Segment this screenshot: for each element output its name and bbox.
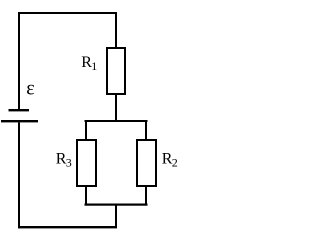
wire parallel split (top bus) bbox=[85, 120, 148, 122]
wire bottom rail bbox=[18, 226, 117, 228]
resistor R3 bbox=[77, 140, 96, 186]
resistor R2 bbox=[137, 140, 156, 186]
wire R1 bottom lead bbox=[115, 94, 117, 122]
battery cell ε (long bottom plate) bbox=[1, 120, 38, 122]
wire R2 top lead bbox=[145, 122, 147, 140]
wire center stub to bottom rail bbox=[115, 205, 117, 228]
svg-text:ε: ε bbox=[26, 77, 34, 99]
wire left rail upper bbox=[18, 12, 20, 110]
wire R3 bottom lead bbox=[85, 186, 87, 204]
wire left rail lower bbox=[18, 122, 20, 228]
wire R1 top lead bbox=[115, 12, 117, 48]
battery cell ε (short top plate) bbox=[9, 109, 30, 111]
wire parallel combine (bottom bus) bbox=[85, 204, 148, 206]
wire top rail bbox=[18, 12, 117, 14]
wire R3 top lead bbox=[85, 122, 87, 140]
wire R2 bottom lead bbox=[145, 186, 147, 204]
resistor R1 bbox=[107, 48, 125, 94]
